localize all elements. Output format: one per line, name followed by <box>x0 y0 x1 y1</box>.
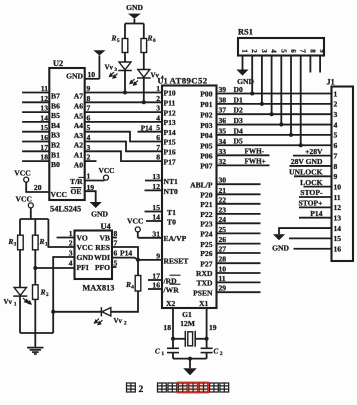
resistor network RS1 body <box>238 38 324 56</box>
svg-text:VCC: VCC <box>51 190 67 199</box>
resistor R3 <box>18 235 24 250</box>
wire A4-P13 <box>85 121 162 123</box>
IC U1 AT89C52 body <box>162 86 217 309</box>
ground symbol at U2 pin 10 <box>93 50 105 55</box>
svg-text:Vv: Vv <box>114 317 123 325</box>
svg-text:3: 3 <box>260 49 268 53</box>
U1 pin 25 wire stub <box>217 232 261 234</box>
U1 pin 10 wire stub <box>217 272 261 274</box>
RS1 pin 1 wire to ground <box>242 56 244 70</box>
crystal G1 12M <box>173 338 185 340</box>
svg-text:R: R <box>125 280 131 289</box>
U2 pin 10 GND wire <box>85 78 100 80</box>
wire A5-P12 <box>85 111 162 113</box>
RS1 pin 6 wire to D4 <box>290 56 292 135</box>
RS1 pin 5 wire to D3 <box>280 56 282 125</box>
J1 pin 8 wire 28V GND <box>290 165 332 167</box>
svg-text:1: 1 <box>241 49 249 53</box>
svg-text:9: 9 <box>318 49 326 53</box>
svg-text:54LS245: 54LS245 <box>50 205 81 214</box>
U4 pin 6 WDI wire to RESET <box>112 258 138 260</box>
earth ground symbol <box>34 333 36 347</box>
svg-text:A6: A6 <box>74 102 83 111</box>
svg-text:T/R: T/R <box>70 177 83 186</box>
svg-text:T0: T0 <box>167 217 176 226</box>
ground symbol at RS1 pin1 <box>236 70 248 76</box>
J1 pin 15 wire stub <box>289 237 332 239</box>
ground symbol at J1 pin 14 <box>273 234 285 240</box>
U2 pin 15 B3 wire <box>22 131 49 133</box>
svg-text:15: 15 <box>334 234 342 243</box>
wire A0 stub <box>85 160 97 162</box>
connector J1 body <box>332 87 354 262</box>
svg-text:GND: GND <box>66 72 83 81</box>
junction RES WDI R4 RESET <box>136 258 140 262</box>
svg-text:T1: T1 <box>167 208 176 217</box>
svg-text:D0: D0 <box>234 85 243 94</box>
svg-text:P25: P25 <box>200 240 212 249</box>
svg-text:16: 16 <box>334 245 342 254</box>
svg-text:U4: U4 <box>101 222 112 231</box>
svg-text:AT89C52: AT89C52 <box>170 76 208 86</box>
junction RS1 pin5 D3 <box>279 123 283 127</box>
svg-text:P11: P11 <box>164 99 176 108</box>
svg-text:VCC: VCC <box>14 169 30 178</box>
svg-text:R: R <box>110 34 116 43</box>
svg-text:4: 4 <box>156 113 160 122</box>
wire A6-P11 <box>85 101 162 103</box>
junction X2 crystal <box>171 337 175 341</box>
svg-text:P14: P14 <box>310 209 322 218</box>
J1 pin 14 wire to ground <box>279 228 332 234</box>
svg-text:GND: GND <box>272 244 289 253</box>
svg-text:R: R <box>7 237 13 246</box>
svg-text:U2: U2 <box>53 59 63 68</box>
RS1 pin 7 wire to D5 <box>300 56 302 146</box>
svg-text:RXD: RXD <box>196 269 213 278</box>
svg-text:P14: P14 <box>141 124 153 132</box>
svg-text:P12: P12 <box>164 108 176 117</box>
svg-text:2: 2 <box>124 322 127 327</box>
svg-text:B0: B0 <box>51 160 60 169</box>
svg-text:A4: A4 <box>74 121 83 130</box>
svg-text:3: 3 <box>156 104 160 113</box>
junction Vv2 GND branch <box>51 310 55 314</box>
wire to U1 RESET <box>138 259 162 261</box>
wire crystal ground rail <box>173 358 207 360</box>
svg-text:P02: P02 <box>200 110 212 119</box>
J1 pin 9 wire UNLOCK <box>294 175 332 177</box>
svg-text:FWH-: FWH- <box>245 147 265 155</box>
wire A7-P10 <box>85 92 162 94</box>
svg-text:PFI: PFI <box>77 263 89 272</box>
junction RS1 pin3 D1 <box>260 102 264 106</box>
svg-text:P26: P26 <box>200 249 212 258</box>
capacitor C1 <box>167 347 179 349</box>
junction Vv4-P11 <box>142 100 146 104</box>
junction X1 crystal <box>205 337 209 341</box>
svg-text:LOCK: LOCK <box>300 178 322 187</box>
IC U2 54LS245 body <box>49 68 84 200</box>
svg-text:P03: P03 <box>200 121 212 130</box>
svg-text:Vv: Vv <box>4 298 13 306</box>
RS1 pin 8 stub <box>309 56 311 73</box>
svg-text:4: 4 <box>131 285 134 291</box>
U1 pin 16 /WR wire <box>148 288 162 290</box>
svg-text:P14: P14 <box>164 128 176 137</box>
wire R6 top <box>143 24 145 39</box>
junction RS1 pin2 D0 <box>250 92 254 96</box>
ground symbol at U2 OE <box>90 202 102 208</box>
U1 pin 14 T0 wire VCC <box>146 220 162 222</box>
U1 pin 30 wire stub <box>217 183 261 185</box>
U1 pin 15 T1 wire <box>145 211 163 213</box>
svg-text:6: 6 <box>114 249 118 258</box>
svg-text:2: 2 <box>156 94 160 103</box>
svg-text:RS1: RS1 <box>238 28 253 37</box>
wire D0 bus <box>217 93 332 95</box>
U1 pin 22 wire stub <box>217 203 261 205</box>
resistor R4 <box>137 260 139 276</box>
svg-text:17: 17 <box>40 143 48 152</box>
svg-text:P14: P14 <box>120 249 132 258</box>
wire rail R5 R6 <box>125 23 144 25</box>
svg-text:16: 16 <box>40 133 48 142</box>
wire Vv3 to P10 <box>124 71 126 93</box>
svg-text:4: 4 <box>69 259 73 268</box>
svg-text:A7: A7 <box>74 92 83 101</box>
svg-text:X2: X2 <box>166 299 175 308</box>
wire FWH- from P06 <box>217 154 270 156</box>
J1 pin 12 wire STOP+ <box>299 206 332 208</box>
svg-text:P24: P24 <box>200 230 212 239</box>
wire A2-P16 <box>85 142 162 152</box>
U1 pin 26 wire stub <box>217 243 261 245</box>
svg-text:R: R <box>39 237 45 246</box>
svg-text:P15: P15 <box>164 138 176 147</box>
svg-text:VO: VO <box>77 234 88 243</box>
svg-text:TXD: TXD <box>196 279 213 288</box>
diode Vv4 <box>138 70 150 78</box>
svg-text:1: 1 <box>45 241 48 247</box>
svg-text:PFO: PFO <box>95 263 110 272</box>
svg-text:B7: B7 <box>51 92 60 101</box>
U1 pin 17 /RD wire <box>148 279 162 281</box>
wire D3 bus <box>217 124 332 126</box>
svg-text:P23: P23 <box>200 220 212 229</box>
svg-text:P07: P07 <box>200 162 212 171</box>
svg-text:/WR: /WR <box>163 285 180 294</box>
svg-text:OE: OE <box>71 187 82 196</box>
J1 pin 11 wire STOP- <box>299 196 332 198</box>
svg-text:6: 6 <box>289 49 297 53</box>
svg-text:12: 12 <box>40 94 48 103</box>
wire R6 to Vv4 <box>143 53 145 70</box>
svg-text:MAX813: MAX813 <box>83 284 115 293</box>
svg-text:WDI: WDI <box>94 253 110 262</box>
J1 pin 16 wire stub <box>294 248 332 250</box>
svg-text:D2: D2 <box>234 106 243 115</box>
svg-text:NT1: NT1 <box>164 177 179 186</box>
svg-text:GND: GND <box>126 3 143 12</box>
ground symbol crystal <box>189 359 191 369</box>
svg-text:13: 13 <box>40 104 48 113</box>
overline WR <box>170 283 181 285</box>
svg-text:9: 9 <box>334 172 338 181</box>
svg-text:P10: P10 <box>164 89 176 98</box>
wire R1 to junction <box>34 250 36 268</box>
svg-text:7: 7 <box>334 151 338 160</box>
svg-text:3: 3 <box>14 241 17 247</box>
svg-text:B2: B2 <box>51 141 60 150</box>
U1 pin 13 NT1 wire <box>145 180 162 182</box>
resistor R5 <box>122 39 128 53</box>
U1 pin 12 NT0 wire <box>145 189 163 191</box>
wire R2 to rail <box>34 299 36 333</box>
U4 pin 7 RES wire <box>112 247 138 260</box>
diode Vv3 <box>119 62 131 70</box>
svg-text:P04: P04 <box>200 131 212 140</box>
RS1 pin 9 stub <box>319 56 321 73</box>
VCC terminal at U2 T/R <box>104 175 109 180</box>
caption red annotation boxes <box>177 382 187 393</box>
U4 pin 4 PFI wire to divider <box>35 267 74 269</box>
svg-text:ABL/P: ABL/P <box>190 180 213 189</box>
wire D1 bus <box>217 103 332 105</box>
svg-text:STOP+: STOP+ <box>298 199 322 208</box>
wire R1 top <box>34 219 36 235</box>
svg-text:D5: D5 <box>234 137 243 146</box>
RS1 pin 2 wire to D0 <box>251 56 253 94</box>
svg-text:6: 6 <box>153 38 156 44</box>
svg-text:28V GND: 28V GND <box>291 157 323 166</box>
svg-text:EA/VP: EA/VP <box>164 234 187 243</box>
svg-text:20: 20 <box>34 183 42 192</box>
U1 pin 18 X2 wire <box>172 308 174 348</box>
svg-text:X1: X1 <box>199 299 208 308</box>
svg-text:19: 19 <box>209 323 217 332</box>
wire ground rail <box>20 332 53 334</box>
svg-text:8: 8 <box>308 49 316 53</box>
RS1 pin 3 wire to D1 <box>261 56 263 104</box>
svg-text:11: 11 <box>41 84 48 93</box>
svg-text:A1: A1 <box>74 151 83 160</box>
svg-text:2: 2 <box>250 49 258 53</box>
svg-text:3: 3 <box>334 110 338 119</box>
svg-text:2: 2 <box>139 385 144 395</box>
J1 pin 13 wire P14 <box>299 217 332 219</box>
wire Vv2 to GND branch <box>53 311 101 313</box>
svg-text:13: 13 <box>334 214 342 223</box>
net label P14 stub to U1 pin5 <box>138 131 163 133</box>
svg-text:10: 10 <box>334 182 342 191</box>
U1 pin 11 wire stub <box>217 281 261 283</box>
svg-text:+28V: +28V <box>305 147 323 156</box>
svg-text:D1: D1 <box>234 95 243 104</box>
U2 pin 16 B2 wire <box>22 141 49 143</box>
U1 pin 28 wire stub <box>217 262 261 264</box>
U2 pin 17 B1 wire <box>22 150 49 152</box>
svg-text:18: 18 <box>40 153 48 162</box>
svg-text:2: 2 <box>46 292 49 298</box>
svg-text:2: 2 <box>220 352 223 357</box>
svg-text:B6: B6 <box>51 101 60 110</box>
svg-text:6: 6 <box>334 141 338 150</box>
svg-text:P06: P06 <box>200 152 212 161</box>
svg-text:B3: B3 <box>51 131 60 140</box>
svg-text:VCC: VCC <box>98 166 114 175</box>
junction crystal rail <box>188 357 192 361</box>
RS1 pin 4 wire to D2 <box>271 56 273 115</box>
svg-text:FWH+: FWH+ <box>245 158 266 166</box>
J1 pin 10 wire LOCK <box>304 186 332 188</box>
U1 pin 24 wire stub <box>217 222 261 224</box>
ground symbol top <box>128 14 141 19</box>
overline RD <box>170 274 181 276</box>
wire D5 bus <box>217 144 332 146</box>
junction RS1 pin7 D5 <box>299 143 303 147</box>
svg-text:P17: P17 <box>164 157 176 166</box>
svg-text:A5: A5 <box>74 111 83 120</box>
wire D2 bus <box>217 113 332 115</box>
svg-text:P05: P05 <box>200 141 212 150</box>
svg-text:1: 1 <box>87 172 91 181</box>
resistor R6 <box>141 39 147 53</box>
svg-text:A2: A2 <box>74 141 83 150</box>
svg-text:B1: B1 <box>51 150 60 159</box>
resistor R2 <box>33 285 39 300</box>
wire R3 top <box>19 219 21 235</box>
U1 pin 31 EA/VP wire <box>138 237 162 239</box>
U2 pin 13 B5 wire <box>22 111 49 113</box>
svg-text:P16: P16 <box>164 148 176 157</box>
svg-text:P20: P20 <box>200 191 212 200</box>
U2 pin 14 B4 wire <box>22 121 49 123</box>
svg-text:R: R <box>40 288 46 297</box>
IC U4 MAX813 body <box>75 231 113 280</box>
svg-text:J1: J1 <box>327 78 335 87</box>
svg-text:UNLOCK: UNLOCK <box>289 168 322 177</box>
svg-text:6: 6 <box>156 133 160 142</box>
wire R5 top <box>124 24 126 39</box>
resistor R1 <box>33 235 39 250</box>
VCC terminal at U2 pin 20 <box>25 182 27 192</box>
U1 pin 27 wire stub <box>217 252 261 254</box>
wire Vv1 to rail <box>19 297 21 333</box>
wire junction to R2 <box>34 268 36 285</box>
junction RS1 pin4 D2 <box>270 112 274 116</box>
svg-text:Vv: Vv <box>105 64 114 72</box>
svg-text:PSEN: PSEN <box>193 288 213 297</box>
svg-text:VCC: VCC <box>16 195 32 204</box>
caption text 图2 原理图第下部分 <box>127 383 136 392</box>
svg-text:VCC: VCC <box>77 243 93 252</box>
junction RS1 pin6 D4 <box>289 133 293 137</box>
svg-text:P01: P01 <box>200 100 212 109</box>
J1 pin 7 wire +28V <box>293 155 332 157</box>
diode Vv2 <box>102 308 111 316</box>
svg-text:14: 14 <box>334 224 342 233</box>
wire FWH+ from P07 <box>217 164 270 166</box>
svg-text:12M: 12M <box>180 319 195 328</box>
wire R3 to Vv1 <box>19 250 21 288</box>
wire R5 to Vv3 <box>124 53 126 63</box>
svg-text:14: 14 <box>40 113 48 122</box>
svg-text:C: C <box>214 348 219 356</box>
svg-text:10: 10 <box>88 70 96 79</box>
svg-text:STOP-: STOP- <box>300 188 323 197</box>
svg-text:B4: B4 <box>51 121 60 130</box>
svg-text:18: 18 <box>163 323 171 332</box>
U4 pin 3 GND wire down to rail <box>53 257 74 333</box>
wire A3-P15 <box>85 132 162 142</box>
svg-text:4: 4 <box>270 49 278 53</box>
svg-text:7: 7 <box>156 143 160 152</box>
capacitor C2 <box>201 347 213 349</box>
wire A1-P17 <box>85 151 162 161</box>
svg-text:GND: GND <box>91 210 108 219</box>
svg-text:1: 1 <box>14 303 17 308</box>
svg-text:VCC: VCC <box>127 217 143 226</box>
svg-text:P00: P00 <box>200 90 212 99</box>
wire Vv4 to P11 <box>143 78 145 102</box>
svg-text:12: 12 <box>334 203 342 212</box>
svg-text:2: 2 <box>334 100 338 109</box>
U1 pin 19 X1 wire <box>206 308 208 348</box>
svg-text:GND: GND <box>77 253 94 262</box>
svg-text:D4: D4 <box>234 126 243 135</box>
U1 pin 23 wire stub <box>217 213 261 215</box>
wire R4 to Vv2 <box>111 291 138 312</box>
U1 pin 29 wire stub <box>217 291 261 293</box>
U4 pin 5 PFO wire stub <box>112 266 117 268</box>
U2 pin 18 B0 wire <box>22 160 49 162</box>
svg-text:G1: G1 <box>182 310 192 319</box>
svg-text:R: R <box>147 34 153 43</box>
U4 pin 1 VO wire stub <box>57 237 75 239</box>
svg-text:5: 5 <box>156 123 160 132</box>
svg-text:4: 4 <box>334 120 338 129</box>
wire divider rail <box>20 218 48 220</box>
svg-text:D3: D3 <box>234 116 243 125</box>
svg-text:7: 7 <box>299 49 307 53</box>
svg-text:VB: VB <box>99 234 110 243</box>
U4 pin 2 VCC wire <box>48 219 74 247</box>
svg-text:11: 11 <box>334 193 341 202</box>
svg-text:B5: B5 <box>51 111 60 120</box>
svg-text:P21: P21 <box>200 200 212 209</box>
svg-text:1: 1 <box>334 89 338 98</box>
wire D4 bus <box>217 134 332 136</box>
svg-text:3: 3 <box>115 68 118 73</box>
svg-text:15: 15 <box>40 123 48 132</box>
svg-text:8: 8 <box>156 153 160 162</box>
svg-text:P22: P22 <box>200 210 212 219</box>
svg-text:5: 5 <box>279 49 287 53</box>
U2 pin 12 B6 wire <box>22 101 49 103</box>
svg-text:5: 5 <box>117 38 120 44</box>
svg-text:C: C <box>155 348 160 356</box>
svg-text:P13: P13 <box>164 118 176 127</box>
U2 pin 11 B7 wire <box>22 92 49 94</box>
junction Vv3-P10 <box>123 91 127 95</box>
svg-text:RES: RES <box>95 243 110 252</box>
svg-text:P27: P27 <box>200 259 212 268</box>
svg-text:5: 5 <box>334 131 338 140</box>
U1 pin 21 wire stub <box>217 193 261 195</box>
junction R1 R2 PFI <box>33 266 37 270</box>
svg-text:RESET: RESET <box>164 256 189 265</box>
